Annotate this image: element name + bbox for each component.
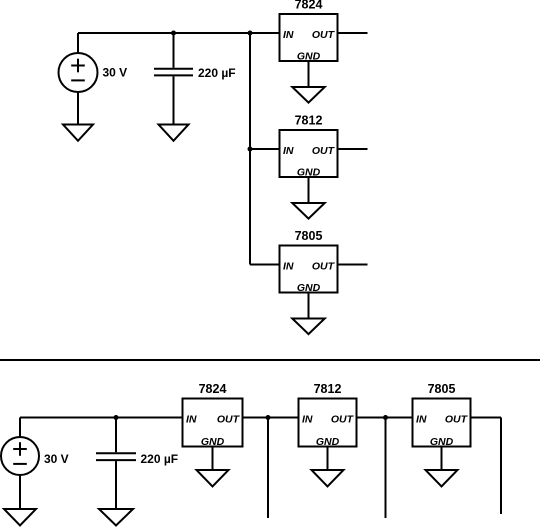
svg-text:IN: IN — [186, 413, 197, 425]
svg-text:GND: GND — [297, 167, 321, 179]
svg-text:220 µF: 220 µF — [141, 452, 179, 466]
svg-text:GND: GND — [201, 436, 225, 448]
svg-text:IN: IN — [416, 413, 427, 425]
svg-text:7805: 7805 — [428, 382, 456, 396]
svg-text:GND: GND — [297, 51, 321, 63]
svg-text:OUT: OUT — [217, 413, 241, 425]
svg-text:7824: 7824 — [295, 0, 323, 12]
svg-text:30 V: 30 V — [44, 452, 69, 466]
svg-text:OUT: OUT — [445, 413, 469, 425]
svg-text:OUT: OUT — [331, 413, 355, 425]
svg-text:30 V: 30 V — [103, 66, 128, 80]
svg-text:OUT: OUT — [312, 260, 336, 272]
svg-text:OUT: OUT — [312, 29, 336, 41]
svg-text:7812: 7812 — [314, 382, 342, 396]
svg-text:7824: 7824 — [199, 382, 227, 396]
svg-text:220 µF: 220 µF — [198, 66, 236, 80]
svg-text:GND: GND — [297, 282, 321, 294]
svg-text:IN: IN — [283, 29, 294, 41]
svg-text:7812: 7812 — [295, 114, 323, 128]
svg-text:IN: IN — [283, 145, 294, 157]
svg-text:OUT: OUT — [312, 145, 336, 157]
svg-text:GND: GND — [316, 436, 340, 448]
svg-text:IN: IN — [302, 413, 313, 425]
svg-text:7805: 7805 — [295, 229, 323, 243]
svg-text:GND: GND — [430, 436, 454, 448]
svg-text:IN: IN — [283, 260, 294, 272]
